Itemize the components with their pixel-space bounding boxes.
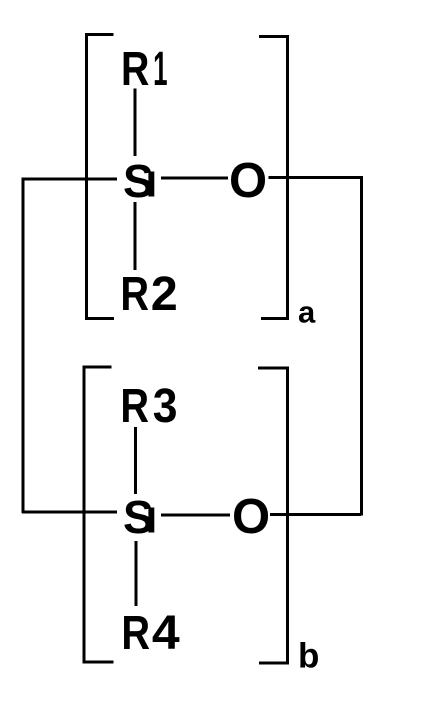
svg-text:4: 4 (152, 607, 180, 660)
bond Si-O (unit b) (161, 514, 230, 517)
substituent label R3 (120, 380, 177, 433)
wire: backbone right segment unit b (270, 513, 361, 516)
wire: backbone right segment unit a (269, 176, 362, 179)
svg-text:R: R (120, 380, 149, 433)
svg-text:2: 2 (151, 268, 178, 321)
bond Si-R2 (134, 202, 137, 270)
bond R1-Si (134, 89, 137, 157)
svg-text:O: O (229, 154, 267, 208)
substituent label R1 (121, 43, 168, 96)
substituent label R2 (120, 268, 177, 321)
bracket right of repeat unit b (258, 368, 288, 663)
svg-text:O: O (232, 490, 270, 544)
atom Si (unit a) (123, 155, 154, 207)
wire: backbone left segment unit b (22, 511, 117, 514)
atom Si (unit b) (123, 491, 154, 543)
svg-text:R: R (120, 268, 149, 321)
svg-text:a: a (298, 295, 316, 330)
bond Si-O (unit a) (161, 177, 228, 180)
svg-text:3: 3 (153, 380, 178, 433)
bracket left of repeat unit a (87, 35, 115, 319)
wire: outer backbone left vertical (22, 178, 25, 514)
bond R3-Si (134, 427, 137, 494)
svg-text:R: R (121, 607, 150, 660)
svg-text:1: 1 (153, 43, 167, 96)
svg-text:R: R (121, 43, 149, 96)
bracket left of repeat unit b (84, 367, 114, 662)
bracket right of repeat unit a (259, 37, 288, 319)
bond Si-R4 (135, 541, 138, 606)
substituent label R4 (121, 607, 180, 660)
wire: outer backbone right vertical (360, 176, 363, 516)
wire: backbone left segment unit a (22, 178, 117, 181)
svg-text:b: b (298, 637, 319, 676)
